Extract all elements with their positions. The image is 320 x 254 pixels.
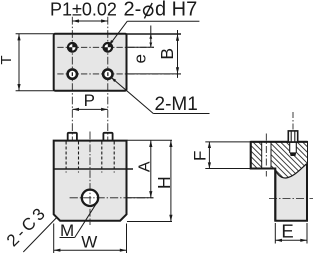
dimension P1±0.02 (top)	[50, 0, 117, 23]
label 2-phi d H7 with leader	[109, 0, 199, 45]
hidden tapped hole lines below left stud	[66, 142, 78, 173]
svg-text:2-: 2-	[124, 0, 142, 21]
svg-text:B: B	[157, 48, 177, 60]
dimension H	[154, 140, 174, 221]
svg-text:T: T	[0, 55, 15, 64]
label 2-C3 with leader to chamfer	[3, 202, 57, 252]
center hole ring (front view)	[82, 190, 98, 206]
tapped hole bottom-right (2-M1)	[103, 69, 112, 78]
body (front view) with chamfered bottom corners	[54, 141, 127, 221]
solid extension of hole axis (for A)	[127, 197, 154, 199]
svg-text:W: W	[81, 233, 97, 252]
svg-text:e: e	[131, 54, 150, 63]
svg-text:H: H	[154, 176, 174, 189]
screw centerline	[292, 112, 294, 130]
vertical centerline of front view	[89, 132, 91, 226]
set screw body	[288, 131, 297, 156]
svg-text:2-M1: 2-M1	[155, 94, 198, 115]
svg-text:E: E	[281, 221, 293, 242]
dimension T (left)	[0, 34, 54, 91]
svg-text:d H7: d H7	[155, 0, 197, 21]
solid extension of bottom hole row (for B)	[127, 73, 181, 75]
screw hole in section (white clearance)	[290, 143, 297, 154]
horizontal centerline top hole row (extends right as extension for e)	[57, 46, 154, 48]
vertical centerline left hole column	[71, 17, 73, 173]
dimension A	[137, 140, 154, 198]
svg-text:P: P	[84, 91, 95, 110]
label M with underline and leader to center hole	[60, 204, 96, 240]
extension line bottom right (H)	[127, 221, 172, 223]
label 2-M1 with leader	[111, 78, 209, 115]
through hole in arm (section)	[262, 142, 271, 169]
stud right (screw protruding)	[103, 133, 112, 141]
vertical centerline right hole column	[107, 17, 109, 173]
tapped hole bottom-left (2-M1)	[68, 69, 77, 78]
wavy break line	[275, 164, 307, 179]
dimension e (right, small)	[131, 26, 153, 64]
centerline of arm hole	[265, 134, 267, 177]
hatched cross-section region with wavy break line	[251, 142, 307, 178]
dimension P (bottom of top view)	[72, 91, 108, 111]
re-stroke arm outline over hatch	[251, 142, 307, 221]
svg-text:2-C3: 2-C3	[3, 202, 51, 250]
horizontal centerline of center hole (extends right as A extension)	[70, 197, 154, 199]
L-shaped body outline	[251, 142, 307, 221]
dowel hole top-left (2-phi d H7)	[68, 43, 77, 52]
extension line top edge right (for e and B)	[127, 33, 182, 35]
center hole (front view)	[82, 190, 98, 206]
dimension F (left of side view)	[191, 142, 251, 169]
svg-text:F: F	[191, 151, 210, 161]
solid extension of top hole row (for e)	[127, 46, 154, 48]
dimension W (bottom)	[54, 224, 127, 254]
svg-text:A: A	[137, 161, 154, 172]
svg-text:P1±0.02: P1±0.02	[50, 0, 117, 19]
horizontal centerline bottom hole row (extends right as extension for B)	[57, 73, 181, 75]
dimension B (right)	[157, 30, 179, 78]
extension line top right (A and H)	[127, 139, 172, 141]
horizontal centerline of leg bore	[269, 198, 313, 200]
step joint line	[54, 168, 133, 170]
hidden tapped hole lines below right stud	[102, 142, 114, 173]
plate body (top view)	[54, 34, 127, 91]
dimension E (bottom of side view)	[275, 221, 307, 244]
dowel hole top-right (2-phi d H7)	[104, 43, 113, 52]
stud left (screw protruding)	[68, 133, 77, 141]
